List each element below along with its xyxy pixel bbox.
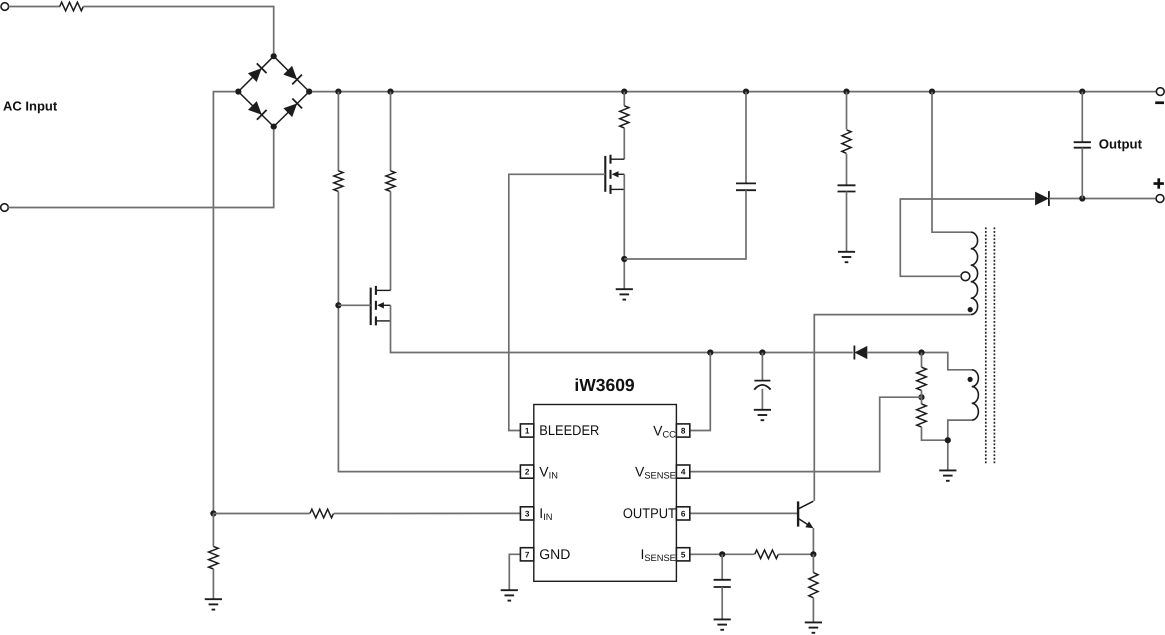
bridge arm: left node to bottom node	[238, 92, 273, 127]
wire: winding bottom to Q3 collector	[814, 315, 970, 501]
transformer core (dashed line 2)	[993, 227, 995, 464]
svg-text:GND: GND	[539, 546, 570, 562]
wire: bus to winding top	[932, 92, 971, 233]
junction: bus / R4 branch	[621, 89, 627, 95]
wire: I_SENSE pin 5 to filter node	[690, 553, 754, 555]
wire: bus to R3	[390, 92, 392, 171]
wire: aux winding bottom to return node	[948, 420, 972, 470]
wire: OUTPUT pin 6 to Q3 base	[690, 512, 797, 514]
junction: bus / R3 branch	[387, 89, 393, 95]
wire: R5 to C2	[846, 154, 848, 185]
label plus sign	[1154, 182, 1164, 185]
svg-text:6: 6	[681, 510, 686, 519]
pin 8 box	[676, 424, 689, 437]
wire: bridge left node to I_IN sense node	[213, 92, 235, 514]
svg-text:Output: Output	[1099, 137, 1143, 152]
wire: aux node to R8	[921, 353, 923, 368]
svg-text:2: 2	[525, 468, 530, 477]
svg-text:7: 7	[525, 550, 530, 559]
wire: Q1 gate to BLEEDER pin 1	[509, 174, 606, 430]
pin 4 box	[676, 465, 689, 478]
wire: bottom AC terminal to bridge bottom	[8, 130, 273, 208]
wire: R11 to ground	[212, 569, 214, 599]
resistor R3 (bleeder FET drain)	[386, 171, 395, 192]
transistor Q2 (bleeder MOSFET)	[370, 288, 372, 326]
junction: bus / C1 branch	[743, 89, 749, 95]
wire: bus to output capacitor	[1081, 92, 1083, 143]
ground (aux winding)	[939, 469, 956, 471]
svg-text:8: 8	[681, 427, 686, 436]
wire: tap to output diode D3	[900, 199, 1034, 276]
wire: C1 bottom to Q1 source node	[624, 190, 746, 259]
junction: V_SENSE divider tap	[918, 394, 924, 400]
resistor R5 (snubber)	[842, 130, 851, 154]
bridge arm: left node to top node	[238, 56, 273, 91]
resistor R1 (AC line series)	[60, 2, 84, 11]
winding tap terminal (open circle)	[961, 272, 970, 281]
wire: R7 to ground	[812, 598, 814, 623]
ground (input sense)	[205, 598, 222, 600]
resistor R10 (I_IN series)	[310, 509, 334, 518]
resistor R4 (Q1 drain)	[620, 106, 629, 128]
wire: I_IN node to R10	[213, 513, 309, 515]
capacitor C2 (snubber)	[838, 184, 856, 186]
pin 1 box	[520, 424, 533, 437]
capacitor C5 (I_SENSE filter)	[714, 579, 731, 581]
ground (IC GND)	[501, 589, 518, 591]
wire: Q3 emitter to I_SENSE node	[812, 528, 814, 554]
resistor R9 (V_SENSE divider lower)	[917, 404, 927, 427]
wire: C3 top lead	[761, 353, 763, 381]
junction: bridge left node	[235, 89, 241, 95]
pin 6 box	[676, 507, 689, 520]
wire: I_IN node to R11	[212, 514, 214, 547]
wire: C2 to ground	[846, 192, 848, 252]
transformer main winding	[971, 232, 978, 314]
wire: C3 to ground	[761, 389, 763, 410]
pin 5 box	[676, 548, 689, 561]
label minus sign	[1155, 101, 1164, 104]
transformer core (dashed line 1)	[985, 227, 987, 464]
wire: C5 to ground	[721, 587, 723, 619]
svg-text:AC Input: AC Input	[3, 98, 58, 113]
wire: R4 to Q1 drain	[623, 128, 625, 159]
wire: R9 to aux return node	[922, 427, 948, 440]
junction: C3 node	[759, 349, 765, 355]
wire: V_CC node to pin 8	[690, 353, 710, 431]
svg-text:BLEEDER: BLEEDER	[539, 422, 599, 438]
wire: R10 to I_IN pin 3	[334, 512, 521, 514]
diode D2 (V_CC rectifier, pointing left)	[854, 346, 867, 360]
svg-text:4: 4	[681, 468, 686, 477]
wire: R1 to bridge top node	[83, 7, 273, 54]
junction: bus / R2 branch	[335, 89, 341, 95]
junction: bus / output capacitor	[1079, 89, 1085, 95]
op-amp U1 iW3609 body	[534, 405, 677, 582]
junction: bridge bottom node	[271, 124, 277, 130]
junction: V_CC supply node	[707, 349, 713, 355]
ground (current sense)	[805, 621, 822, 623]
transistor Q1 (HV pass MOSFET)	[604, 156, 606, 192]
junction: aux return node	[945, 437, 951, 443]
resistor R6 (I_SENSE series)	[755, 550, 779, 559]
resistor R11 (input current sense)	[209, 546, 219, 569]
resistor R7 (current sense)	[809, 573, 818, 598]
svg-text:1: 1	[525, 427, 530, 436]
wire: R2 to V_IN pin 2 (via Q2 gate node)	[338, 191, 521, 471]
winding polarity dot (main, bottom)	[968, 307, 973, 312]
wire: filter cap top lead	[721, 554, 723, 580]
wire: R8 to R9	[921, 390, 923, 404]
bridge arm: top node to right node	[274, 56, 310, 91]
winding polarity dot (auxiliary)	[968, 377, 973, 382]
wire: top AC terminal to fuse resistor	[9, 6, 61, 8]
transistor Q3 (NPN driver)	[797, 501, 799, 526]
AC input terminal (top, line)	[1, 3, 9, 11]
wire: Q2 source down and V_CC supply rail	[391, 305, 853, 352]
pin 3 box	[520, 507, 533, 520]
pin 2 box	[520, 465, 533, 478]
wire: R3 to Q2 drain	[390, 191, 392, 290]
wire: R6 to Q3 emitter node	[778, 553, 813, 555]
wire: main rectified bus (to negative output terminal)	[312, 91, 1157, 93]
resistor R8 (V_SENSE divider upper)	[917, 367, 927, 390]
wire: GND pin 7 to ground	[509, 554, 521, 590]
output terminal (negative)	[1156, 88, 1164, 96]
capacitor C1	[736, 182, 756, 184]
junction: bridge right node	[306, 89, 312, 95]
svg-text:5: 5	[681, 550, 686, 559]
wire: Q2 gate lead	[338, 304, 370, 306]
ground (V_CC cap)	[754, 409, 771, 411]
junction: bridge top node	[271, 53, 277, 59]
junction: bus / snubber branch	[843, 89, 849, 95]
pin 7 box	[520, 548, 533, 561]
svg-text:3: 3	[525, 510, 530, 519]
junction: I_IN node	[210, 510, 216, 516]
junction: output capacitor node (+ rail)	[1079, 195, 1085, 201]
wire: bus to R4	[623, 92, 625, 106]
bridge diode D1a (left to top)	[247, 63, 266, 82]
svg-text:OUTPUT: OUTPUT	[623, 505, 676, 521]
bridge diode D1d (bottom to right)	[283, 99, 302, 118]
wire: bus to R2	[337, 92, 339, 171]
wire: output capacitor to + rail	[1081, 148, 1083, 199]
wire: D2 anode to aux node, down to aux winding top	[867, 353, 972, 370]
junction: I_SENSE filter node	[719, 551, 725, 557]
wire: D3 to positive output terminal	[1049, 198, 1156, 200]
ground (I_SENSE filter)	[714, 618, 731, 620]
wire: emitter node to R7	[812, 554, 814, 572]
ground (Q1 source)	[616, 288, 633, 290]
capacitor C3 (V_CC, polarized)	[754, 380, 770, 382]
transformer auxiliary winding	[972, 370, 979, 420]
diode D3 (output rectifier)	[1035, 191, 1049, 206]
bridge arm: bottom node to right node	[274, 92, 310, 127]
junction: aux winding / R8 node	[918, 349, 924, 355]
wire: bus to R5	[846, 92, 848, 130]
ground (snubber)	[838, 251, 855, 253]
resistor R2 (startup, to V_IN)	[334, 171, 343, 192]
junction: Q2 gate node	[335, 302, 341, 308]
wire: bus to C1 top	[745, 92, 747, 184]
bridge diode D1c (left to bottom)	[248, 101, 267, 120]
junction: Q3 emitter / R7 node	[810, 551, 816, 557]
output terminal (positive)	[1156, 195, 1164, 203]
svg-text:iW3609: iW3609	[574, 375, 635, 395]
AC input terminal (bottom, neutral)	[1, 204, 9, 212]
capacitor C4 (output)	[1074, 141, 1091, 143]
wire: divider tap to V_SENSE pin 4	[690, 397, 922, 471]
junction: bus / transformer branch	[929, 89, 935, 95]
bridge diode D1b (top to right)	[283, 65, 302, 84]
junction: Q1 source / C1 node	[621, 256, 627, 262]
wire: Q1 source down to ground node	[623, 174, 625, 289]
